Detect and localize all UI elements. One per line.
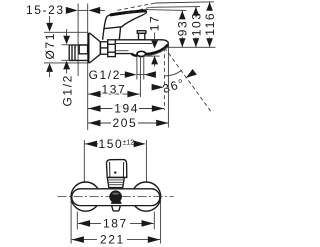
svg-text:137: 137 xyxy=(102,82,127,96)
wall pipe nipple xyxy=(69,45,88,60)
extension line for 103 xyxy=(150,6,200,9)
svg-text:194: 194 xyxy=(114,102,139,116)
dim G1/2 wall pipe up arrow xyxy=(63,61,70,70)
handle front view xyxy=(106,160,126,178)
dim 150 right extension line xyxy=(145,140,147,184)
spout inner curve xyxy=(145,47,168,56)
shower outlet stub ring xyxy=(137,51,146,56)
center line dash-dot xyxy=(58,196,174,198)
svg-text:Ø71: Ø71 xyxy=(43,32,57,59)
extension line for 93 xyxy=(144,9,187,12)
raised handle dashed line upper xyxy=(118,3,156,10)
angle leader arrow xyxy=(152,84,164,91)
shower outlet centerline xyxy=(139,56,141,97)
handle top dark edge xyxy=(111,11,145,15)
dim 221 right extension line xyxy=(160,199,162,244)
mixer body inner line lower xyxy=(115,50,128,52)
dim 194 line xyxy=(88,108,113,110)
dim 93 line xyxy=(181,10,183,17)
escutcheon cone small end xyxy=(99,42,101,54)
dim 116 line xyxy=(209,2,211,10)
dim 17 bottom extension line xyxy=(144,55,160,57)
dim O71 down arrow xyxy=(49,16,51,24)
dim O71 up arrow xyxy=(46,63,53,72)
spout underside curve xyxy=(145,45,168,54)
slanted dashed flow line xyxy=(164,48,211,113)
handle indicator dot xyxy=(114,171,116,173)
bottom stub front xyxy=(112,206,114,211)
dim 150 line xyxy=(84,143,98,145)
dim 17 up arrow xyxy=(151,56,158,65)
spout top corner xyxy=(163,40,168,47)
spout right edge / 205 extension line xyxy=(167,47,169,127)
dim O71 bottom extension line xyxy=(44,62,88,64)
body bar front xyxy=(72,189,160,206)
svg-text:116: 116 xyxy=(203,12,217,36)
vertical dashed reference xyxy=(163,48,165,111)
dim 15-23 connector line xyxy=(78,9,88,11)
right escutcheon circle xyxy=(132,182,161,211)
mixer body inner line upper xyxy=(115,43,152,45)
svg-text:17: 17 xyxy=(147,15,161,32)
union nut xyxy=(108,40,116,57)
handle lever outline xyxy=(104,11,147,30)
dim 15-23 right arrow xyxy=(88,7,100,14)
svg-text:187: 187 xyxy=(103,216,128,230)
dim 17 down arrow xyxy=(154,33,156,42)
arc arrowhead xyxy=(186,69,197,78)
raised handle dashed line lower xyxy=(126,7,150,13)
wall range line 1 xyxy=(77,4,79,77)
dim 205 line xyxy=(88,122,111,124)
dim 150 left extension line xyxy=(83,140,85,184)
wall range line 2 / wall surface extension xyxy=(87,4,89,131)
svg-text:93: 93 xyxy=(176,20,190,37)
mixer body top edge xyxy=(115,39,163,41)
shower outlet extension line left xyxy=(136,56,138,80)
left escutcheon circle xyxy=(71,182,100,211)
angle arc xyxy=(164,71,181,76)
svg-text:205: 205 xyxy=(113,116,138,130)
diverter knob flange xyxy=(137,31,146,34)
handle base xyxy=(103,28,104,40)
dim 187 line xyxy=(78,222,101,224)
svg-text:103: 103 xyxy=(189,11,203,36)
diverter knob front xyxy=(109,190,122,203)
escutcheon cone bottom edge xyxy=(89,54,100,63)
svg-text:15-23: 15-23 xyxy=(26,3,65,17)
diverter knob body xyxy=(139,33,145,40)
G1/2 outlet right-pointing arrow xyxy=(120,74,126,76)
dim 187 left extension line xyxy=(76,212,78,230)
dim G1/2 wall pipe down arrow xyxy=(66,29,68,37)
dim 221 left extension line xyxy=(70,199,72,244)
svg-text:G1/2: G1/2 xyxy=(61,74,75,106)
dim 187 right extension line xyxy=(153,212,155,230)
nipple square detail xyxy=(79,45,87,54)
spout outlet shared reference line xyxy=(168,46,215,48)
shower outlet extension line right xyxy=(143,56,145,79)
dim 15-23 left arrow xyxy=(66,7,78,14)
body underside dip xyxy=(131,54,137,56)
svg-text:±12: ±12 xyxy=(123,139,135,146)
G1/2 outlet left-pointing arrow xyxy=(144,71,156,78)
dim 221 line xyxy=(72,239,97,241)
union block xyxy=(100,42,107,54)
cartridge collar xyxy=(107,177,124,187)
dim 103 line xyxy=(195,7,197,14)
dim 137 line xyxy=(88,93,140,95)
handle front inner lines xyxy=(109,162,111,177)
extension line for 116 xyxy=(155,2,214,3)
mixer body bottom edge xyxy=(115,53,131,55)
escutcheon cone top edge xyxy=(89,33,100,42)
svg-text:221: 221 xyxy=(100,233,125,247)
dim O71 top extension line xyxy=(44,31,88,33)
svg-text:150: 150 xyxy=(99,137,124,151)
svg-text:G1/2: G1/2 xyxy=(89,68,121,82)
escutcheon rim xyxy=(88,33,90,63)
